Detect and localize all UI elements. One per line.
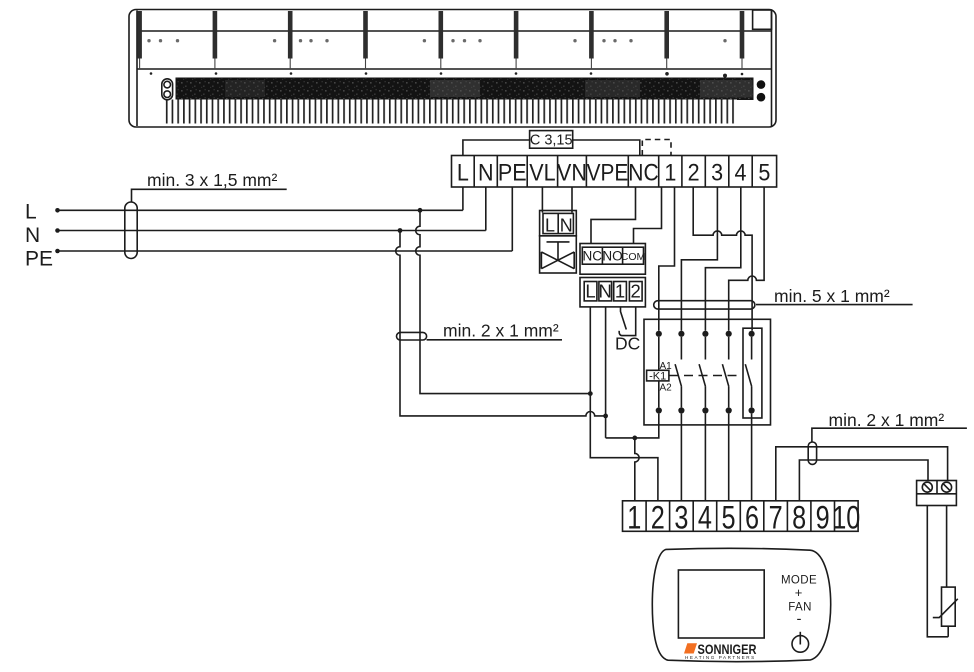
svg-text:min. 2 x 1 mm²: min. 2 x 1 mm² — [443, 321, 559, 341]
svg-text:min. 3 x 1,5 mm²: min. 3 x 1,5 mm² — [147, 170, 277, 190]
svg-text:2: 2 — [651, 501, 665, 537]
svg-text:NO: NO — [602, 249, 622, 264]
svg-text:+: + — [795, 585, 803, 600]
svg-text:VN: VN — [557, 158, 587, 186]
svg-text:9: 9 — [816, 501, 830, 537]
svg-text:2: 2 — [631, 281, 641, 302]
svg-text:VL: VL — [529, 158, 556, 186]
svg-text:10: 10 — [832, 501, 860, 537]
svg-text:N: N — [560, 216, 573, 236]
svg-text:1: 1 — [627, 501, 641, 537]
svg-text:2: 2 — [688, 158, 700, 186]
svg-text:L: L — [585, 281, 595, 302]
svg-text:min. 2 x 1 mm²: min. 2 x 1 mm² — [829, 410, 945, 430]
svg-text:NC: NC — [583, 249, 603, 264]
svg-text:PE: PE — [498, 158, 527, 186]
svg-text:HEATING PARTNERS: HEATING PARTNERS — [685, 655, 756, 660]
svg-text:N: N — [25, 224, 40, 247]
svg-text:5: 5 — [758, 158, 770, 186]
svg-text:N: N — [599, 281, 612, 302]
svg-text:3: 3 — [711, 158, 723, 186]
svg-text:1: 1 — [664, 158, 676, 186]
svg-text:7: 7 — [769, 501, 783, 537]
svg-text:A2: A2 — [660, 383, 673, 394]
svg-text:A1: A1 — [660, 361, 673, 372]
svg-text:VPE: VPE — [587, 158, 629, 186]
svg-text:4: 4 — [698, 501, 712, 537]
svg-text:NC: NC — [628, 158, 658, 186]
svg-text:3: 3 — [674, 501, 688, 537]
svg-text:COM: COM — [621, 251, 646, 263]
svg-text:PE: PE — [25, 247, 53, 270]
svg-text:L: L — [545, 216, 555, 236]
svg-text:L: L — [25, 201, 37, 224]
svg-text:DC: DC — [615, 334, 640, 354]
svg-text:-K1: -K1 — [649, 370, 666, 382]
svg-text:N: N — [478, 158, 494, 186]
svg-text:6: 6 — [745, 501, 759, 537]
svg-text:1: 1 — [615, 281, 625, 302]
svg-text:5: 5 — [721, 501, 735, 537]
svg-text:-: - — [797, 611, 802, 628]
svg-text:C 3,15: C 3,15 — [530, 133, 573, 149]
svg-text:4: 4 — [735, 158, 747, 186]
svg-text:min. 5 x 1 mm²: min. 5 x 1 mm² — [774, 286, 890, 306]
svg-text:L: L — [457, 158, 469, 186]
svg-text:8: 8 — [792, 501, 806, 537]
